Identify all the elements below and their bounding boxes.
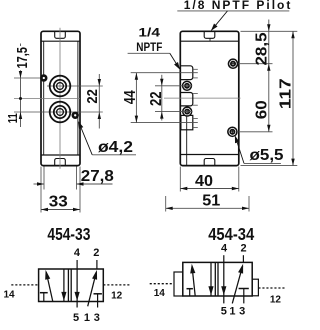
svg-text:ø5,5: ø5,5 xyxy=(250,147,284,164)
svg-text:33: 33 xyxy=(49,193,68,210)
svg-text:4: 4 xyxy=(74,247,81,259)
svg-text:3: 3 xyxy=(239,306,245,318)
svg-text:4: 4 xyxy=(221,242,228,254)
svg-text:1: 1 xyxy=(84,312,90,324)
svg-text:22: 22 xyxy=(148,91,165,106)
svg-text:60: 60 xyxy=(253,100,270,119)
svg-text:2: 2 xyxy=(93,247,99,259)
svg-text:40: 40 xyxy=(195,173,213,190)
svg-text:5: 5 xyxy=(221,306,227,318)
svg-text:12: 12 xyxy=(111,290,123,301)
svg-text:22: 22 xyxy=(84,89,101,104)
svg-text:11: 11 xyxy=(5,113,20,123)
svg-text:51: 51 xyxy=(202,193,220,210)
svg-text:1/8 NPTF Pilot: 1/8 NPTF Pilot xyxy=(184,0,293,12)
svg-text:14: 14 xyxy=(154,288,166,299)
svg-text:2: 2 xyxy=(241,242,247,254)
svg-text:454-33: 454-33 xyxy=(47,224,90,244)
svg-text:NPTF: NPTF xyxy=(136,40,162,54)
svg-text:44: 44 xyxy=(122,90,139,104)
svg-text:117: 117 xyxy=(278,78,295,109)
svg-text:28,5: 28,5 xyxy=(253,32,270,65)
svg-text:27,8: 27,8 xyxy=(81,168,114,185)
svg-text:1/4: 1/4 xyxy=(138,25,160,39)
svg-text:12: 12 xyxy=(270,294,282,305)
svg-text:14: 14 xyxy=(3,289,15,300)
svg-text:3: 3 xyxy=(94,312,100,324)
svg-text:17,5: 17,5 xyxy=(14,47,31,69)
svg-text:1: 1 xyxy=(229,306,235,318)
svg-text:5: 5 xyxy=(73,312,79,324)
svg-text:ø4,2: ø4,2 xyxy=(98,139,133,156)
svg-text:454-34: 454-34 xyxy=(208,224,254,244)
